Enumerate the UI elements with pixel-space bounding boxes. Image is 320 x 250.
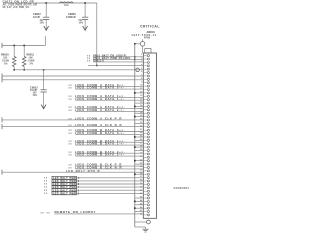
wire LED_BKLT_PWR_2 [44,179,143,183]
svg-text:LED_BKLT_RTN_R: LED_BKLT_RTN_R [66,169,100,173]
wire LED_BKLT_PWR_3 [44,183,143,187]
note text line 3 [3,7,31,9]
svg-text:S1RE5651: S1RE5651 [174,186,190,190]
svg-text:42: 42 [140,192,143,195]
wire shield to gnd bus [135,43,141,45]
wire R9011_ON_LCD [2,73,143,78]
note text line 2 [3,3,38,6]
pin 1 key box [145,49,151,54]
note CRITICAL [140,25,160,29]
svg-text:10%: 10% [40,22,45,24]
svg-text:x x: x x [47,212,51,214]
svg-text:LVDS_COMB_A_CLK_N_R: LVDS_COMB_A_CLK_N_R [75,123,122,127]
ground at bus bottom [135,227,149,232]
svg-text:LED_BKLT_PWR_6: LED_BKLT_PWR_6 [53,192,80,195]
svg-text:10%: 10% [33,95,38,97]
wire LED_BKLT_PWR_5 [44,189,143,193]
svg-text:14: 14 [140,97,143,100]
svg-text:x x: x x [69,155,73,157]
svg-text:x x: x x [69,141,73,143]
wire LED_BKLT_PWR_6 [44,192,143,196]
svg-text:x x: x x [44,177,48,179]
svg-text:x x: x x [69,107,73,109]
junction R9010 bottom [13,69,15,71]
wire LED_BKLT_PWR_1 [44,176,143,180]
wire mounting pin to bus [135,221,147,223]
svg-text:LVDS_COMB_A_DATA_2-<-: LVDS_COMB_A_DATA_2-<- [75,108,125,112]
junction node cap C9812 tap [45,2,47,4]
wire R9010_ON_LCD [14,69,143,71]
svg-text:x x: x x [69,130,73,132]
svg-text:13: 13 [140,95,143,97]
svg-text:x x: x x [44,193,48,195]
junction rail drop on PWR wire [96,64,98,66]
series circle on wire [136,68,140,72]
wire LVDS_COMB_B_DATA_2+ [69,150,144,154]
svg-text:4P5M: 4P5M [144,37,150,40]
label J9003 part number [131,33,156,37]
junction shield wire on bus [134,43,136,45]
junction node cap C9800 tap [84,2,86,4]
svg-text:34: 34 [140,165,143,168]
ground below C9812 [44,24,49,30]
svg-text:1UH: 1UH [64,5,69,7]
svg-text:LVDS_COMB_B_DATA_1-<-: LVDS_COMB_B_DATA_1-<- [75,142,125,146]
svg-text:x x: x x [44,187,48,189]
svg-text:SE_3.3V_LCD_PWR_S7L: SE_3.3V_LCD_PWR_S7L [3,7,31,9]
svg-text:LVDS_COMB_B_DATA_2-<-: LVDS_COMB_B_DATA_2-<- [75,153,125,157]
wire +3.3V rail [3,2,97,4]
gnd bus wire [134,44,136,227]
svg-text:x x: x x [69,96,73,98]
svg-text:x x: x x [69,144,73,146]
label S1RE5651 [174,186,190,190]
svg-text:x x: x x [69,85,73,87]
ground below C9813 [41,97,46,109]
wire LVDS_COMB_B_CLK_P [69,163,144,167]
label R9010 value [1,53,10,66]
junction R9011 top [23,45,25,47]
label C9800 value [66,12,83,24]
wire R9011-A [87,58,143,62]
svg-text:x x: x x [87,61,91,63]
wire row 4 [88,64,143,66]
svg-text:LVDS_COMB_A_DATA_0-<-: LVDS_COMB_A_DATA_0-<- [75,86,125,90]
svg-text:6: 6 [141,71,143,73]
ground below C9800 [83,24,88,30]
svg-text:x x: x x [44,190,48,192]
resistor R9010 [12,46,16,70]
wire LVDS_COMB_A_CLK_N [2,123,143,129]
capacitor C9813 [41,70,47,97]
svg-text:4: 4 [141,63,143,66]
wire LVDS_COMB_B_DATA_1- [69,142,144,146]
svg-text:x x: x x [69,133,73,135]
net label C9171_ON_LCD_PP [3,0,35,4]
svg-text:10%: 10% [79,22,84,24]
inductor L9000 [60,2,74,7]
junction C9813 tap [43,69,45,71]
svg-text:R9011-A: R9011-A [93,58,104,62]
capacitor C9800 [82,3,88,24]
wire LVDS_COMB_A_DATA_2- [69,108,144,112]
svg-text:35: 35 [140,170,143,172]
junction R9010 top [13,45,15,47]
resistor R9011 [22,46,26,70]
svg-text:x x: x x [41,212,45,214]
svg-text:0.1UF: 0.1UF [30,88,37,92]
junction bus at EN row [134,56,136,58]
gnd bus junctions [134,92,136,209]
wire LVDS_COMB_A_CLK_P [2,117,143,123]
wire LVDS_COMB_A_DATA_0+ [69,83,144,87]
wire LVDS_COMB_A_DATA_2+ [69,105,144,109]
svg-text:1: 1 [141,54,143,56]
capacitor C9812 [43,3,49,24]
svg-text:0.001UF: 0.001UF [66,15,76,19]
wire LVDS_COMB_B_CLK_N [69,166,144,170]
svg-text:LVDS_COMB_A_DATA_1-<-: LVDS_COMB_A_DATA_1-<- [75,97,125,101]
svg-text:x x: x x [44,184,48,186]
pin numbers [140,54,143,215]
gnd bus stub wires [135,93,144,212]
wire LED_BKLT_RTN [2,169,143,175]
svg-text:9: 9 [141,81,143,83]
svg-text:LVDS_COMB_B_DATA_0-<-: LVDS_COMB_B_DATA_0-<- [75,131,125,135]
wire LVDS_COMB_A_DATA_1- [69,97,144,101]
junction bus at PWM row [134,59,136,61]
label R9011 value [27,53,36,66]
wire LVDS_COMB_B_DATA_1+ [69,139,144,143]
wire LVDS_COMB_B_DATA_0+ [69,128,144,132]
wire LVDS_COMB_A_DATA_0- [69,86,144,90]
svg-text:5%: 5% [4,62,8,65]
svg-text:23: 23 [140,129,143,131]
wire LVDS_COMB_A_DATA_1+ [69,94,144,98]
label J9003 refdes [146,30,155,34]
svg-text:x x: x x [69,165,73,167]
svg-text:x x: x x [69,88,73,90]
mounting pin circle [147,220,151,224]
wire row k7 [2,77,143,82]
connector pin contacts 1-48 [143,55,149,216]
wire LED_BKLT_PWR_4 [44,186,143,190]
label C9813 value [30,85,38,97]
svg-text:x x: x x [69,110,73,112]
wire PNL0_BKLT_EN_LVDS [87,53,143,57]
wire LVDS_COMB_B_DATA_0- [69,131,144,135]
wire REMOTE_ON_LCDRST [41,210,144,214]
wire LVDS_COMB_B_DATA_2- [69,153,144,157]
label C9812 value [33,12,44,24]
svg-text:27: 27 [140,142,143,144]
svg-text:LVDS_COMB_A_CLK_P_R: LVDS_COMB_A_CLK_P_R [75,117,122,121]
label J9003 type [144,37,150,40]
svg-text:0.1UF: 0.1UF [33,15,40,19]
wire PNL0_BKLT_PWM [87,56,143,60]
svg-text:x x: x x [69,99,73,101]
svg-text:5%: 5% [30,62,34,65]
wire rail drop to connector side [96,3,98,65]
svg-text:x x: x x [69,152,73,154]
svg-text:CRITICAL: CRITICAL [140,25,160,29]
connector J9003 body [143,53,156,218]
junction R9011 bottom [23,69,25,71]
wire pullup feed [2,36,45,48]
svg-text:x x: x x [44,181,48,183]
shield pin circle [140,39,145,53]
